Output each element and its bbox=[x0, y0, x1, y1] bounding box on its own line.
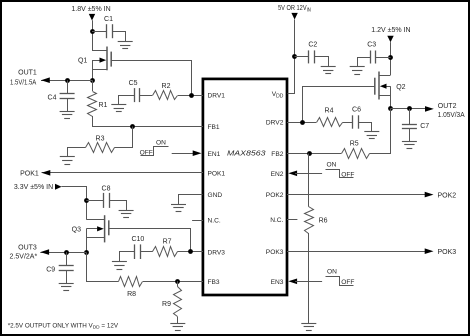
wire R4 to C6 bbox=[343, 122, 353, 124]
ground (C7) bbox=[402, 141, 417, 143]
svg-text:R3: R3 bbox=[96, 135, 105, 142]
wire POK2 bbox=[287, 194, 425, 196]
svg-text:FB3: FB3 bbox=[208, 279, 220, 286]
arrow POK2 bbox=[425, 192, 434, 198]
node C4 junction bbox=[65, 78, 70, 83]
N.C. stub (right) bbox=[287, 219, 297, 221]
wire to C4 bbox=[67, 80, 69, 93]
ground (C1) bbox=[118, 41, 133, 43]
wire to C7 bbox=[409, 109, 411, 124]
power-in triangle 1.8V bbox=[89, 14, 95, 21]
wire R7 to DRV3 bbox=[178, 251, 203, 253]
svg-text:EN3: EN3 bbox=[271, 279, 284, 286]
arrow OUT3 bbox=[40, 249, 49, 255]
wire FB2 to R5 bbox=[287, 153, 341, 155]
wire Q2 drain to OUT2 node bbox=[390, 86, 392, 109]
svg-text:DRV2: DRV2 bbox=[266, 120, 284, 127]
node FB2/R6 junction bbox=[307, 151, 312, 156]
capacitor C3 bbox=[370, 51, 372, 64]
wire ground to C10 bbox=[120, 252, 135, 262]
svg-text:Q2: Q2 bbox=[396, 84, 405, 91]
wire OUT1 bbox=[41, 80, 92, 82]
svg-text:GND: GND bbox=[208, 192, 223, 199]
wire Q3 gate to DRV3 node bbox=[109, 229, 191, 252]
svg-text:C4: C4 bbox=[48, 94, 57, 101]
wire C9 to ground bbox=[66, 271, 68, 284]
ground (C5) bbox=[111, 104, 126, 106]
svg-text:R5: R5 bbox=[350, 140, 359, 147]
node DRV1 junction bbox=[189, 93, 194, 98]
resistor R8 bbox=[119, 277, 143, 287]
svg-text:POK2: POK2 bbox=[438, 192, 457, 199]
svg-text:POK3: POK3 bbox=[438, 249, 457, 256]
ground (C9) bbox=[59, 283, 74, 285]
node OUT2 at Q2 drain bbox=[388, 106, 393, 111]
wire R6 down to ground bbox=[308, 233, 310, 323]
node FB3/R9 junction bbox=[175, 279, 180, 284]
svg-text:POK3: POK3 bbox=[266, 249, 284, 256]
svg-text:POK1: POK1 bbox=[208, 170, 226, 177]
capacitor C2 bbox=[308, 50, 310, 63]
ground (C4) bbox=[60, 111, 75, 113]
svg-text:C7: C7 bbox=[420, 123, 429, 130]
svg-text:R7: R7 bbox=[163, 238, 172, 245]
svg-text:DRV3: DRV3 bbox=[208, 249, 226, 256]
N.C. stub (left) bbox=[192, 220, 203, 222]
capacitor C4 bbox=[60, 93, 75, 95]
resistor R4 bbox=[317, 118, 343, 127]
wire R2 to DRV1 bbox=[178, 95, 203, 97]
svg-text:N.C.: N.C. bbox=[208, 218, 221, 225]
node DRV3 junction bbox=[188, 249, 193, 254]
svg-text:1.05V/3A: 1.05V/3A bbox=[438, 112, 465, 119]
wire EN3 bbox=[295, 281, 322, 283]
svg-text:R1: R1 bbox=[99, 102, 108, 109]
node OUT1 at Q1 drain bbox=[90, 78, 95, 83]
capacitor C6 bbox=[352, 115, 354, 128]
wire C10 to R7 bbox=[140, 251, 152, 253]
wire GND pin to ground bbox=[179, 195, 203, 205]
arrow POK3 bbox=[425, 248, 434, 254]
arrow into EN2 bbox=[288, 171, 297, 177]
svg-text:OUT2: OUT2 bbox=[438, 103, 457, 110]
node VDD/C2 junction bbox=[292, 54, 297, 59]
svg-text:1.5V/1.5A: 1.5V/1.5A bbox=[10, 80, 37, 87]
wire EN2 bbox=[295, 173, 322, 175]
ground (R9) bbox=[170, 323, 185, 325]
arrow into EN1 bbox=[193, 150, 202, 156]
power-in triangle 5V bbox=[291, 13, 297, 20]
svg-text:R6: R6 bbox=[319, 217, 328, 224]
svg-text:VDD: VDD bbox=[272, 91, 284, 99]
wire ground to C5 bbox=[119, 96, 135, 105]
svg-text:C6: C6 bbox=[352, 106, 361, 113]
wire R8 to FB3 bbox=[143, 281, 203, 283]
svg-text:FB1: FB1 bbox=[208, 124, 220, 131]
resistor R1 bbox=[92, 80, 94, 91]
svg-text:EN1: EN1 bbox=[208, 151, 221, 158]
ground (C2) bbox=[321, 66, 336, 68]
ground (GND pin) bbox=[171, 204, 186, 206]
ON/OFF step symbol EN1 bbox=[141, 147, 169, 156]
svg-text:2.5V/2A*: 2.5V/2A* bbox=[10, 254, 38, 261]
svg-text:C9: C9 bbox=[46, 266, 55, 273]
capacitor C5 bbox=[134, 88, 136, 102]
svg-text:C5: C5 bbox=[129, 80, 138, 87]
capacitor C1 bbox=[106, 24, 108, 38]
node C9 junction bbox=[64, 250, 69, 255]
ON/OFF step symbol EN3 bbox=[326, 277, 354, 286]
ground (C3) bbox=[350, 66, 365, 68]
wire 1.8V rail down to Q1 source bbox=[92, 20, 94, 50]
wire R5 to OUT2 bbox=[370, 109, 391, 154]
capacitor C9 bbox=[59, 265, 74, 267]
svg-text:MAX8563: MAX8563 bbox=[227, 149, 267, 158]
svg-text:C10: C10 bbox=[131, 236, 144, 243]
power-in triangle 3.3V bbox=[55, 184, 62, 190]
svg-text:C3: C3 bbox=[367, 41, 376, 48]
svg-text:C1: C1 bbox=[104, 16, 113, 23]
power-in triangle 1.2V bbox=[387, 36, 393, 43]
ground (R6) bbox=[301, 323, 316, 325]
wire Q1 drain to OUT1 node bbox=[92, 60, 94, 80]
ground (C8) bbox=[119, 210, 134, 212]
svg-text:OUT3: OUT3 bbox=[18, 245, 37, 252]
node DRV2 junction bbox=[300, 120, 305, 125]
svg-text:N.C.: N.C. bbox=[270, 217, 283, 224]
wire C8 to ground bbox=[110, 201, 127, 211]
svg-text:R2: R2 bbox=[162, 83, 171, 90]
wire C5 to R2 bbox=[139, 95, 152, 97]
resistor R9 bbox=[177, 281, 179, 286]
svg-text:R9: R9 bbox=[162, 301, 171, 308]
wire OUT3 bbox=[40, 252, 86, 254]
wire C3 to ground bbox=[358, 58, 371, 67]
svg-text:ON: ON bbox=[156, 139, 166, 146]
node OUT3 at Q3 drain bbox=[84, 250, 89, 255]
wire Q3 drain to OUT3 node bbox=[86, 229, 88, 252]
svg-text:C2: C2 bbox=[308, 41, 317, 48]
svg-text:OFF: OFF bbox=[341, 279, 354, 286]
arrow POK1 bbox=[42, 170, 51, 176]
svg-text:Q3: Q3 bbox=[72, 226, 81, 233]
svg-text:Q1: Q1 bbox=[78, 57, 87, 64]
svg-text:EN2: EN2 bbox=[271, 171, 284, 178]
svg-text:FB2: FB2 bbox=[271, 151, 283, 158]
svg-text:*2.5V OUTPUT ONLY WITH VDD = 1: *2.5V OUTPUT ONLY WITH VDD = 12V bbox=[8, 323, 119, 331]
wire 1.2V rail down bbox=[390, 42, 392, 75]
svg-text:1.8V ±5% IN: 1.8V ±5% IN bbox=[71, 6, 110, 13]
wire EN1 input bbox=[172, 153, 194, 155]
resistor R2 bbox=[153, 91, 178, 100]
wire POK1 bbox=[42, 172, 203, 174]
svg-text:DRV1: DRV1 bbox=[208, 93, 226, 100]
wire to C9 bbox=[66, 252, 68, 266]
wire to C1 bbox=[92, 31, 107, 33]
capacitor C7 bbox=[402, 124, 417, 126]
svg-text:POK1: POK1 bbox=[20, 170, 39, 177]
wire Q1 gate to DRV1 node bbox=[112, 61, 192, 96]
resistor R5 bbox=[342, 149, 370, 159]
arrow OUT1 bbox=[41, 77, 50, 83]
wire 3.3V to Q3 bbox=[62, 187, 87, 220]
wire C6 to ground bbox=[359, 123, 372, 132]
svg-text:ON: ON bbox=[327, 269, 337, 276]
resistor R3 bbox=[86, 143, 115, 153]
wire FB2 node down to R6 bbox=[308, 154, 310, 207]
node C7 junction bbox=[407, 106, 412, 111]
wire POK3 bbox=[287, 251, 425, 253]
arrow OUT2 bbox=[425, 106, 434, 112]
svg-text:OFF: OFF bbox=[341, 172, 354, 179]
node FB1/R3 junction bbox=[130, 124, 135, 129]
ground (C6) bbox=[364, 131, 379, 133]
svg-text:OFF: OFF bbox=[140, 150, 153, 157]
svg-text:POK2: POK2 bbox=[266, 192, 284, 199]
wire C2 to ground bbox=[315, 57, 329, 67]
svg-text:R8: R8 bbox=[127, 291, 136, 298]
transistor Q3 bbox=[104, 215, 106, 242]
wire Q2 gate to DRV2 node bbox=[303, 87, 376, 123]
wire OUT3 to R8 bbox=[87, 253, 119, 282]
svg-text:ON: ON bbox=[327, 161, 337, 168]
wire R3 to ground bbox=[68, 148, 86, 157]
wire C1 to ground bbox=[113, 32, 126, 42]
ON/OFF step symbol EN2 bbox=[326, 170, 354, 178]
svg-text:3.3V ±5% IN: 3.3V ±5% IN bbox=[14, 184, 53, 191]
wire C3 to 1.2V bbox=[375, 57, 390, 59]
capacitor C10 bbox=[134, 244, 136, 259]
svg-text:C8: C8 bbox=[102, 185, 111, 192]
transistor Q1 bbox=[106, 47, 108, 71]
ground (R3) bbox=[60, 156, 75, 158]
node 3.3V/C8 junction bbox=[84, 198, 89, 203]
wire C7 to ground bbox=[409, 129, 411, 141]
svg-text:OUT1: OUT1 bbox=[18, 70, 37, 77]
transistor Q2 bbox=[378, 72, 380, 100]
ground (C10) bbox=[112, 261, 127, 263]
op-amp-style IC U1 MAX8563 outline bbox=[203, 79, 287, 295]
wire FB1 line bbox=[92, 126, 203, 128]
capacitor C8 bbox=[103, 193, 105, 208]
svg-text:R4: R4 bbox=[325, 107, 334, 114]
wire to C8 bbox=[86, 200, 104, 202]
node: 1.8V/C1 junction bbox=[90, 29, 95, 34]
wire VDD rail bbox=[288, 20, 295, 94]
arrow into EN3 bbox=[288, 279, 297, 285]
wire OUT2 bbox=[391, 108, 426, 110]
wire to C2 bbox=[295, 56, 309, 58]
resistor R7 bbox=[153, 247, 178, 257]
svg-text:1.2V ±5% IN: 1.2V ±5% IN bbox=[371, 27, 410, 34]
node 1.2V/C3 junction bbox=[388, 55, 393, 60]
wire C4 to ground bbox=[67, 98, 69, 111]
resistor R6 bbox=[305, 207, 314, 234]
wire DRV2 to R4 bbox=[287, 122, 316, 124]
wire FB1 to R3 bbox=[115, 127, 133, 148]
